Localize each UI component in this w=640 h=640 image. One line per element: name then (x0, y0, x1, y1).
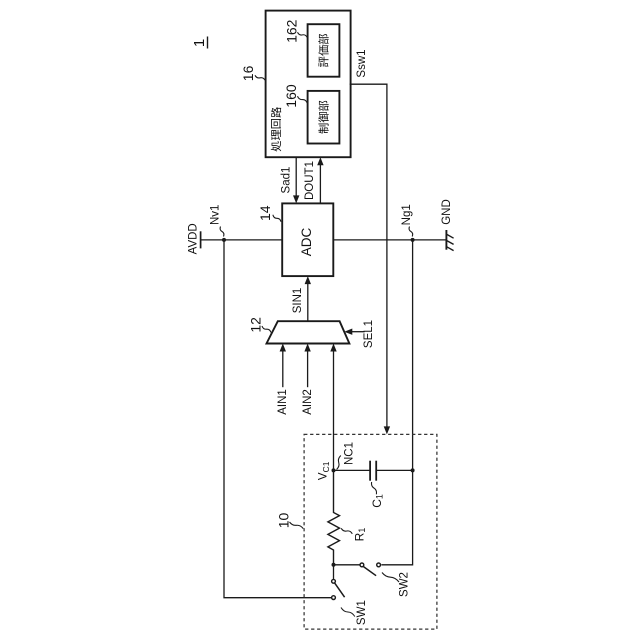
svg-text:1: 1 (191, 39, 208, 47)
svg-text:C1: C1 (370, 494, 384, 508)
figure label underline (207, 37, 209, 49)
svg-text:16: 16 (240, 65, 256, 81)
svg-text:Ssw1: Ssw1 (356, 49, 368, 77)
tilde Nv1 (220, 227, 224, 237)
switch SW2 lever (364, 567, 377, 576)
processing circuit box 16 (266, 11, 351, 158)
evaluation unit box 162 (308, 24, 340, 76)
wire junction to SW1 (333, 565, 335, 579)
svg-text:SIN1: SIN1 (292, 288, 304, 314)
tilde 162 (298, 32, 308, 37)
svg-text:160: 160 (283, 84, 299, 108)
tilde C1 (371, 482, 376, 494)
svg-text:NC1: NC1 (343, 442, 355, 465)
wire AIN2 input (307, 351, 309, 388)
switch SW2 terminal B (377, 563, 381, 567)
wire AIN1 input (282, 351, 284, 388)
tilde 14 (273, 215, 281, 222)
svg-text:Nv1: Nv1 (210, 205, 222, 225)
wire node NC1 to mux input (333, 351, 335, 471)
tilde NC1 (337, 456, 341, 470)
node NC1 junction (VC1) (332, 468, 336, 472)
wire Sad1: processing circuit to ADC (295, 157, 297, 196)
wire left rail: Nv1 node down to SW1 (224, 240, 331, 598)
sensor circuit dashed box 10 (304, 434, 437, 629)
arrowhead DOUT1 into box 16 (317, 157, 323, 165)
tilde 10 (290, 522, 304, 529)
wire junction to SW2 (334, 564, 360, 566)
svg-text:SW1: SW1 (356, 600, 368, 625)
arrowhead SIN1 into ADC (305, 276, 311, 284)
tilde R1 (341, 528, 352, 534)
svg-text:GND: GND (441, 199, 453, 225)
arrowhead VC1 line into mux (330, 344, 336, 352)
tilde SW1 (341, 608, 355, 617)
switch SW1 lever (335, 583, 345, 597)
arrowhead AIN2 into mux (304, 344, 310, 352)
ADC block 14 (282, 203, 333, 276)
label 評価部 (evaluation unit) (318, 34, 328, 67)
wire SIN1: mux to ADC (307, 284, 309, 322)
tilde SW2 (382, 573, 399, 583)
junction capacitor right node (411, 468, 415, 472)
svg-text:14: 14 (257, 205, 273, 221)
ground hatch 3 (447, 247, 454, 251)
node junction R1/SW1/SW2 (332, 563, 336, 567)
tilde Ng1 (409, 227, 413, 237)
wire capacitor to Ng1 rail (376, 469, 412, 471)
wire SEL1 (351, 331, 365, 333)
svg-text:10: 10 (276, 513, 292, 529)
svg-text:ADC: ADC (299, 228, 314, 257)
tilde 160 (298, 96, 308, 103)
arrowhead Sad1 into ADC (293, 195, 299, 203)
ground hatch 1 (447, 234, 454, 238)
capacitor C1 plate 1 (369, 461, 371, 481)
switch SW1 terminal C (332, 579, 336, 583)
svg-text:162: 162 (283, 19, 299, 43)
svg-text:Ng1: Ng1 (401, 204, 413, 225)
svg-text:R1: R1 (353, 528, 367, 542)
multiplexer 12 (267, 321, 350, 343)
control unit box 160 (308, 91, 340, 144)
svg-text:SW2: SW2 (398, 572, 410, 597)
svg-text:12: 12 (247, 317, 263, 333)
wire ADC to ground (333, 239, 446, 241)
svg-text:AIN2: AIN2 (302, 389, 314, 415)
ground hatch 2 (447, 241, 454, 245)
switch SW2 terminal A (360, 563, 364, 567)
node Nv1 junction (222, 238, 226, 242)
node Ng1 junction (411, 238, 415, 242)
wire Ssw1: box16 to switch control (350, 84, 387, 426)
wire AVDD supply rail to ADC (201, 239, 283, 241)
svg-text:Sad1: Sad1 (281, 167, 293, 194)
arrowhead Ssw1 into dashed box (384, 426, 390, 434)
label 制御部 (control unit) (318, 101, 328, 134)
arrowhead AIN1 into mux (280, 344, 286, 352)
svg-text:VC1: VC1 (318, 461, 331, 480)
svg-text:AIN1: AIN1 (277, 389, 289, 415)
ground symbol bar (445, 230, 447, 250)
tilde 16 (255, 75, 265, 80)
svg-text:DOUT1: DOUT1 (304, 161, 316, 200)
svg-text:AVDD: AVDD (187, 223, 199, 254)
tilde 12 (262, 326, 271, 333)
capacitor C1 plate 2 (375, 461, 377, 481)
arrowhead SEL1 into mux (344, 329, 352, 335)
label 処理回路 (processing circuit) (271, 107, 281, 151)
switch SW1 terminal D (332, 596, 336, 600)
wire NC1 to capacitor (334, 469, 371, 471)
svg-text:SEL1: SEL1 (363, 320, 375, 348)
wire Ng1 rail down to capacitor node and SW2 (381, 240, 412, 565)
wire DOUT1: ADC to processing circuit (319, 165, 321, 204)
resistor R1 (328, 470, 340, 564)
power AVDD terminal bar (200, 231, 202, 248)
